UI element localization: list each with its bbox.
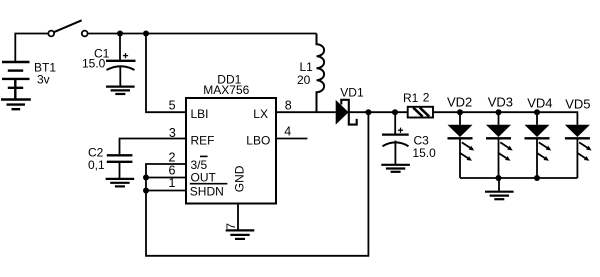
svg-text:1: 1: [168, 176, 175, 190]
svg-text:L1: L1: [300, 60, 314, 74]
ground (battery): [1, 100, 31, 110]
wire battery to switch: [15, 34, 48, 63]
svg-text:3v: 3v: [37, 73, 50, 87]
svg-text:MAX756: MAX756: [203, 83, 249, 97]
svg-text:OUT: OUT: [191, 170, 217, 184]
svg-text:GND: GND: [233, 165, 247, 192]
svg-text:7: 7: [226, 223, 238, 229]
wire C1 stem: [119, 34, 121, 60]
wire diode to R1: [349, 111, 408, 113]
wire pin 3 REF to C2: [120, 139, 187, 155]
switch SA1: [48, 20, 87, 36]
LED VD3: [486, 112, 513, 178]
wire pin 2 down along bottom rail up to output node: [146, 112, 368, 256]
wire pin 8 LX to diode: [276, 111, 336, 113]
svg-text:VD1: VD1: [340, 86, 364, 100]
capacitor C1: [106, 53, 136, 70]
svg-text:VD2: VD2: [447, 94, 472, 109]
svg-text:REF: REF: [191, 133, 215, 147]
wire pin 1: [146, 190, 186, 192]
ground (C2): [106, 179, 135, 187]
svg-text:LBI: LBI: [191, 107, 209, 121]
svg-text:15.0: 15.0: [82, 56, 106, 70]
op-amp U1: IC DD1 MAX756 body: [186, 98, 276, 204]
svg-text:0,1: 0,1: [88, 158, 105, 172]
junction C1 top: [117, 31, 123, 37]
pin 7 GND wire: [237, 204, 239, 230]
junction pin1: [143, 188, 149, 194]
LED VD2: [448, 112, 475, 178]
wire LED rail to ground: [498, 178, 500, 191]
wire R1 to LED rail: [433, 112, 577, 125]
wire LED cathode rail: [460, 177, 577, 179]
svg-text:VD3: VD3: [488, 94, 513, 109]
wire switch to L1 (top rail): [88, 33, 317, 35]
ground (LED rail): [485, 192, 514, 200]
junction VD3 cathode: [496, 175, 502, 181]
svg-text:15.0: 15.0: [412, 146, 436, 160]
wire pin 6: [146, 177, 186, 179]
wire C3 to ground: [394, 141, 396, 164]
junction LBI branch: [143, 31, 149, 37]
svg-text:4: 4: [284, 124, 291, 138]
LED VD5: [565, 125, 592, 178]
svg-text:2: 2: [423, 91, 430, 105]
pin 4 LBO stub wire: [276, 138, 307, 140]
capacitor C2: [107, 155, 133, 162]
junction VD4 cathode: [534, 175, 540, 181]
junction pin6: [143, 175, 149, 181]
junction C3 branch: [392, 109, 398, 115]
svg-text:20: 20: [297, 73, 311, 87]
svg-text:VD5: VD5: [565, 96, 590, 111]
junction VD2: [457, 109, 463, 115]
wire to pin 5 LBI: [146, 34, 186, 113]
svg-text:5: 5: [169, 99, 176, 113]
junction VD4: [534, 109, 540, 115]
svg-text:VD4: VD4: [527, 95, 552, 110]
wire C2 to ground: [119, 163, 121, 178]
ground (C1): [106, 87, 135, 94]
diode VD1 (Schottky): [336, 100, 357, 125]
resistor R1: [408, 107, 433, 118]
battery BT1: [2, 62, 30, 99]
wire C1 to ground: [119, 67, 121, 87]
junction bottom-rail riser: [365, 109, 371, 115]
wire C3 stem: [394, 112, 396, 133]
svg-text:R1: R1: [403, 91, 419, 105]
svg-text:LBO: LBO: [246, 133, 270, 147]
svg-text:LX: LX: [253, 107, 268, 121]
svg-text:3: 3: [169, 126, 176, 140]
junction VD3: [496, 109, 502, 115]
ground (IC pin 7): [226, 230, 255, 239]
ground (C3): [381, 165, 410, 172]
LED VD4: [525, 112, 552, 178]
svg-text:8: 8: [285, 99, 292, 113]
capacitor C3: [382, 128, 409, 147]
inductor L1: [317, 34, 325, 113]
svg-text:SHDN: SHDN: [190, 185, 224, 199]
